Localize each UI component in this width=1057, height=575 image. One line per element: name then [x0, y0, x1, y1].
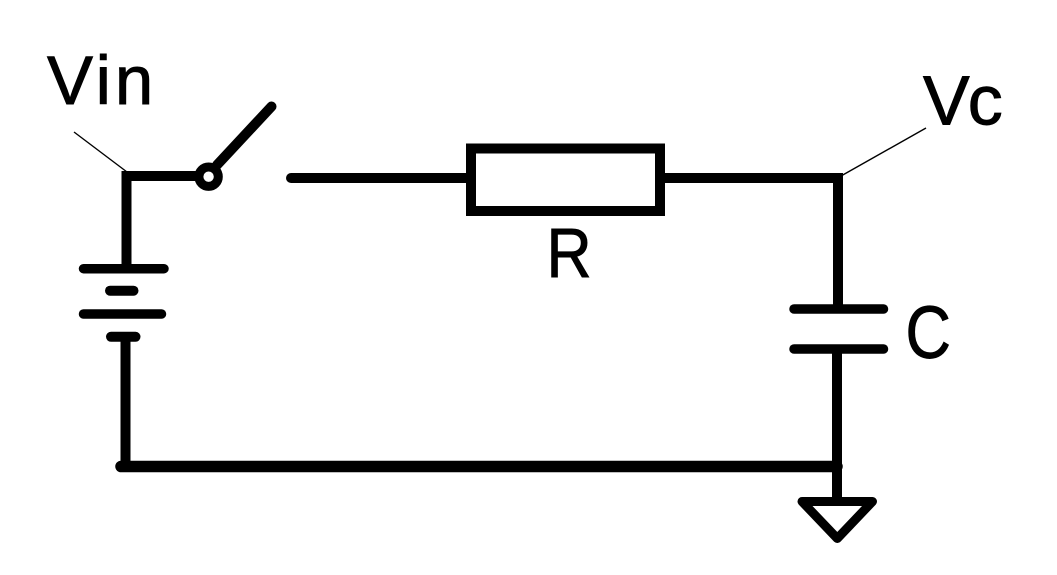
battery V1 plate 1 (long, positive) — [84, 264, 165, 274]
wire: switch throw terminal to resistor left lead — [291, 173, 470, 183]
svg-text:R: R — [547, 215, 592, 293]
leader line from Vc label to node — [841, 128, 926, 176]
ground symbol triangle — [802, 502, 873, 539]
switch S1 lever (open) — [217, 107, 272, 166]
svg-text:C: C — [906, 291, 951, 374]
capacitor C bottom plate — [794, 344, 884, 354]
wire: resistor right lead to Vc corner and down to capacitor — [660, 178, 838, 307]
ground stem wire — [832, 461, 842, 500]
resistor R body — [471, 149, 660, 212]
battery V1 plate 3 (long, positive) — [84, 309, 162, 319]
wire: capacitor bottom plate down to ground junction — [832, 349, 842, 466]
battery V1 plate 4 (short, negative) — [111, 332, 136, 342]
wire: top-left corner from battery top to switch — [127, 176, 201, 266]
leader line from Vin label to node — [74, 132, 127, 172]
capacitor C top plate — [794, 304, 884, 314]
svg-text:Vin: Vin — [47, 42, 157, 119]
battery V1 plate 2 (short, negative) — [110, 286, 134, 296]
switch S1 hinge contact — [199, 167, 218, 186]
wire: battery negative terminal down to bottom rail — [121, 339, 131, 466]
svg-text:Vc: Vc — [923, 62, 1002, 140]
wire: bottom return rail — [121, 461, 837, 473]
